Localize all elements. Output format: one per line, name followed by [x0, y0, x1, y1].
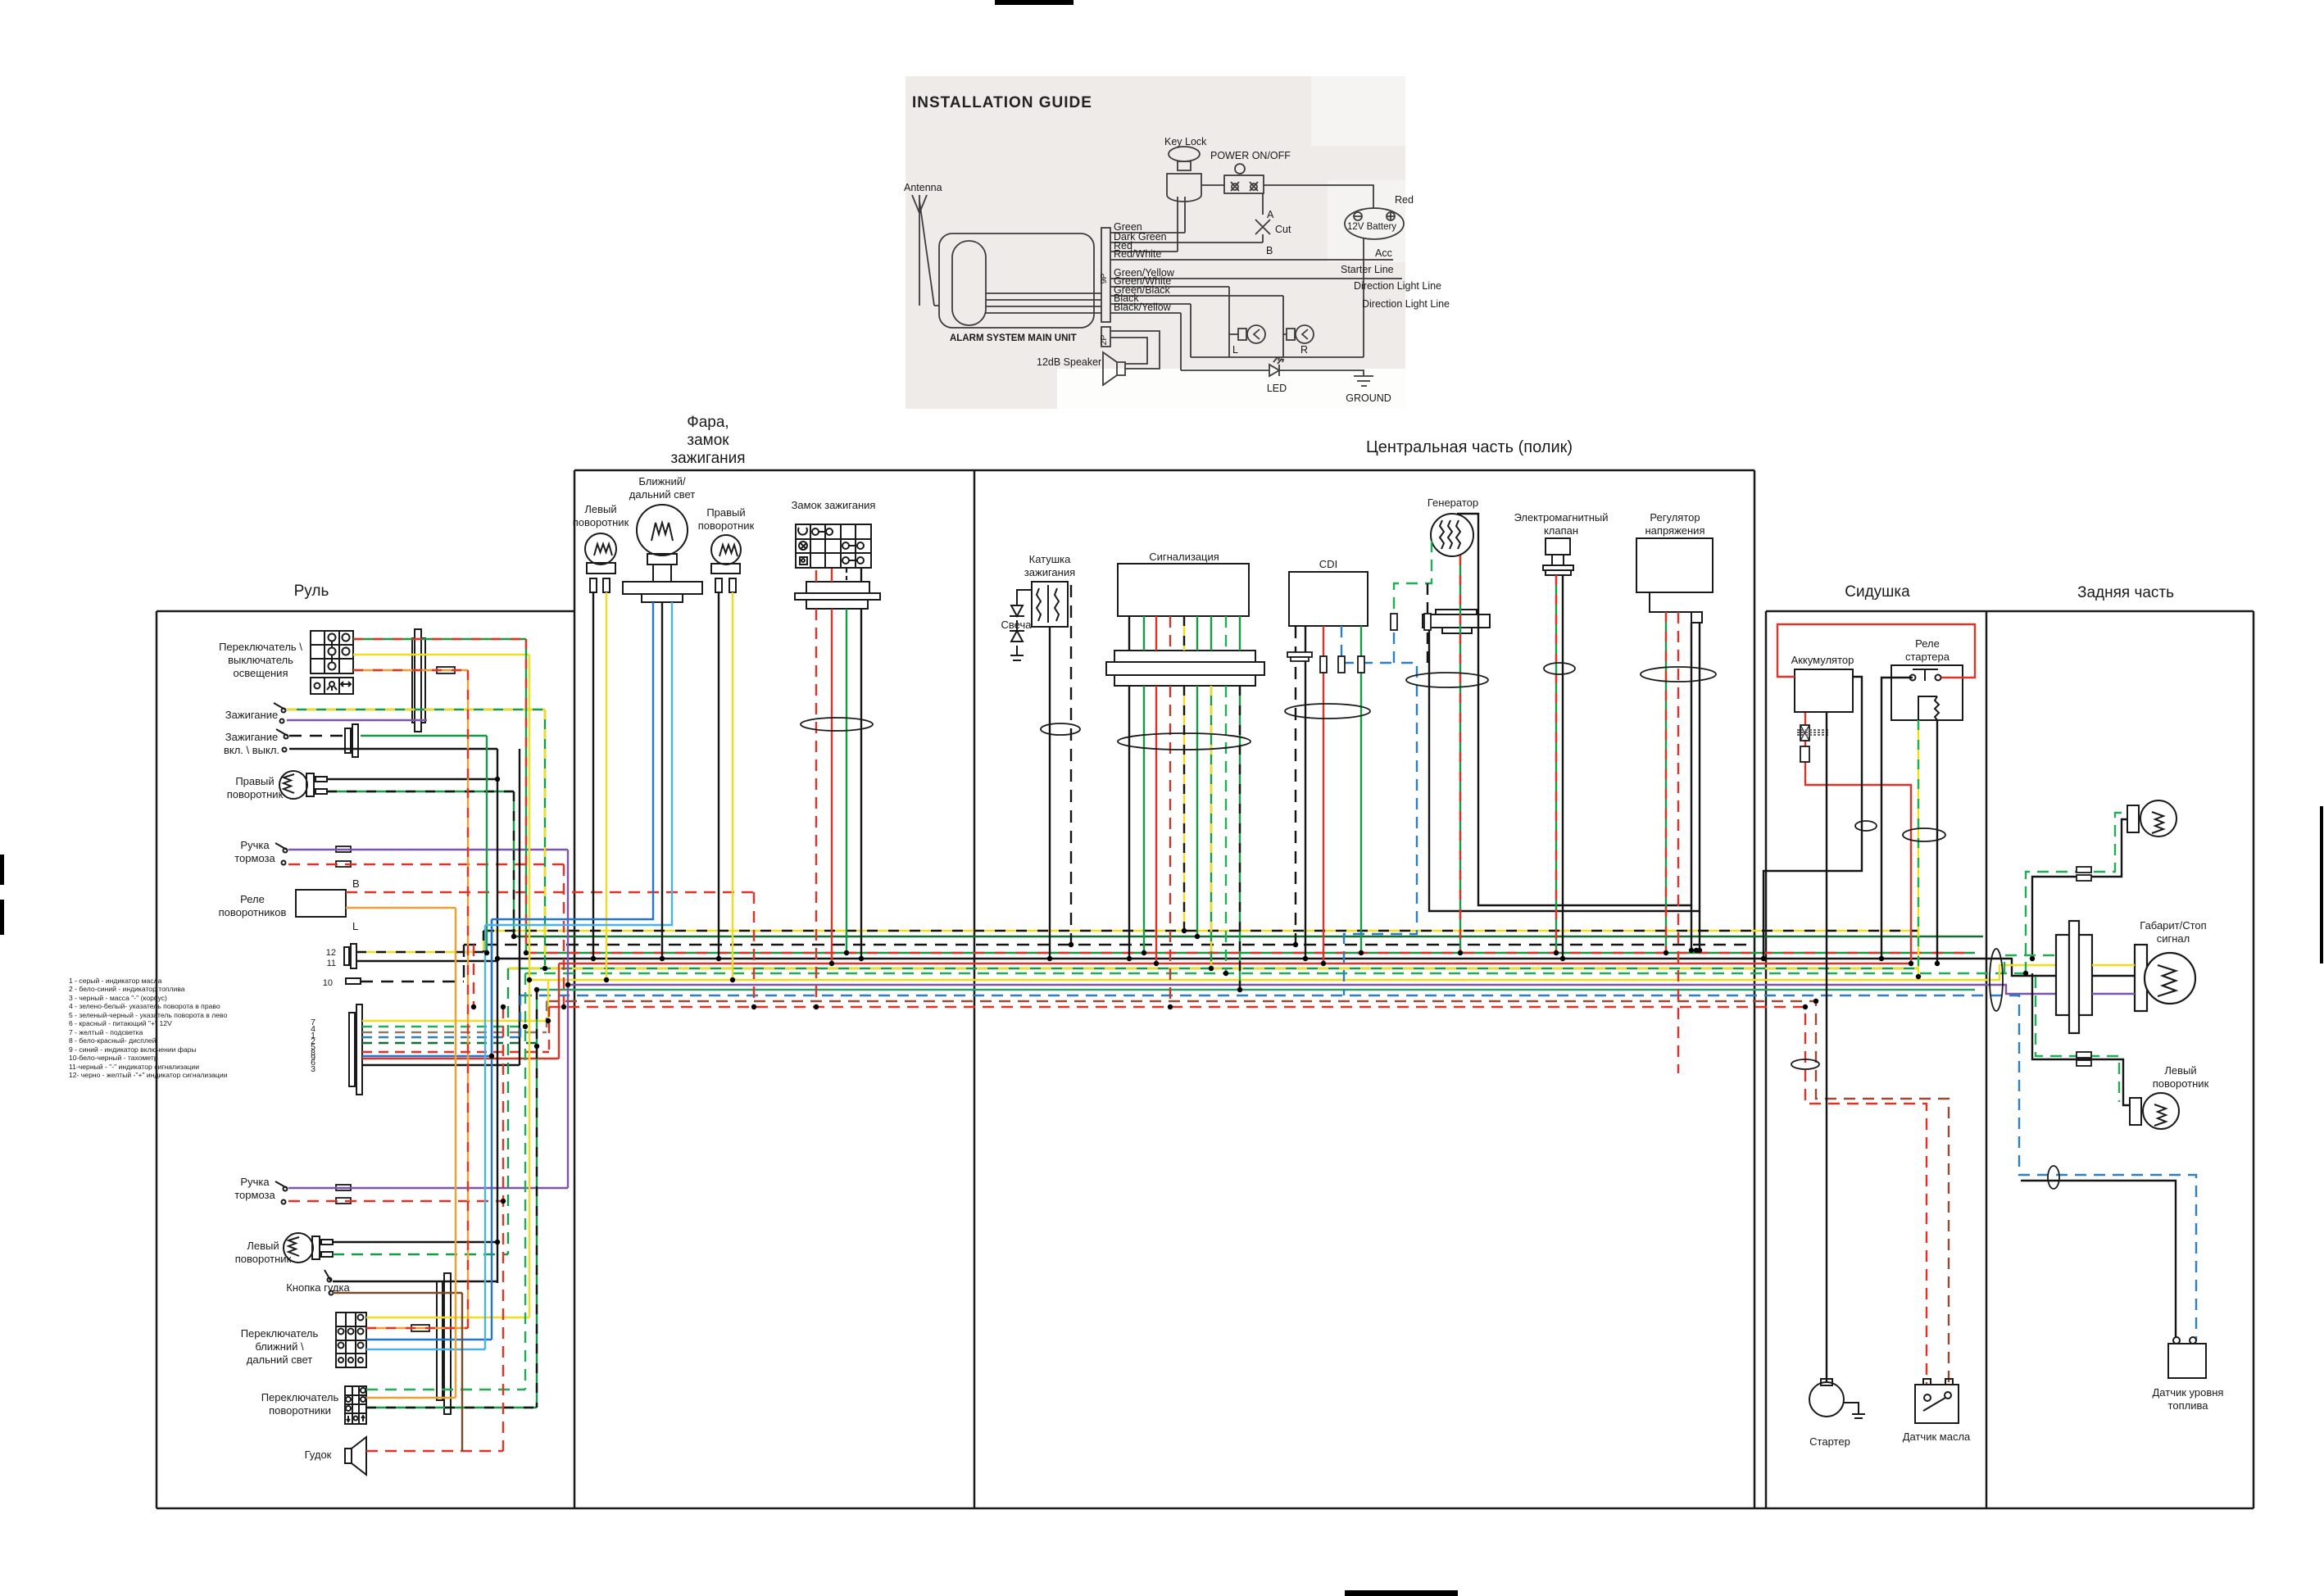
svg-text:8 - бело-красный- дисплей: 8 - бело-красный- дисплей [69, 1036, 157, 1045]
svg-text:Руль: Руль [294, 583, 329, 600]
svg-text:поворотник: поворотник [227, 788, 284, 800]
svg-text:LED: LED [1267, 383, 1287, 394]
svg-text:Замок зажигания: Замок зажигания [792, 499, 876, 511]
svg-text:L: L [352, 920, 358, 932]
svg-text:освещения: освещения [234, 667, 288, 679]
svg-text:дальний свет: дальний свет [629, 488, 696, 501]
svg-text:дальний свет: дальний свет [247, 1353, 313, 1366]
svg-text:Левый: Левый [247, 1240, 279, 1252]
svg-text:2 - бело-синий - индикатор топ: 2 - бело-синий - индикатор топлива [69, 985, 185, 993]
svg-text:1 - серый - индикатор масла: 1 - серый - индикатор масла [69, 977, 162, 985]
svg-text:Red: Red [1395, 194, 1414, 206]
svg-text:R: R [1300, 344, 1308, 356]
svg-text:Аккумулятор: Аккумулятор [1791, 654, 1854, 666]
svg-text:ALARM SYSTEM MAIN UNIT: ALARM SYSTEM MAIN UNIT [950, 333, 1077, 343]
svg-text:тормоза: тормоза [234, 1189, 275, 1201]
svg-text:INSTALLATION GUIDE: INSTALLATION GUIDE [912, 94, 1092, 111]
svg-text:Переключатель: Переключатель [261, 1391, 339, 1403]
svg-text:Сидушка: Сидушка [1845, 583, 1910, 601]
svg-text:Фара,: Фара, [687, 414, 729, 431]
svg-text:Гудок: Гудок [305, 1449, 332, 1461]
svg-text:Key Lock: Key Lock [1164, 136, 1207, 147]
svg-text:Переключатель \: Переключатель \ [219, 641, 302, 653]
svg-text:B: B [352, 877, 360, 890]
svg-text:Сигнализация: Сигнализация [1149, 551, 1219, 563]
svg-text:Acc: Acc [1375, 247, 1392, 259]
svg-text:GROUND: GROUND [1346, 392, 1391, 404]
svg-text:POWER ON/OFF: POWER ON/OFF [1210, 150, 1291, 161]
svg-text:Ручка: Ручка [240, 1176, 270, 1188]
svg-text:топлива: топлива [2168, 1399, 2209, 1412]
svg-text:Датчик масла: Датчик масла [1903, 1431, 1971, 1443]
svg-text:Катушка: Катушка [1029, 553, 1072, 565]
svg-text:12V Battery: 12V Battery [1347, 222, 1396, 232]
svg-text:Black/Yellow: Black/Yellow [1114, 302, 1172, 313]
svg-text:Antenna: Antenna [904, 182, 942, 193]
svg-text:Red/White: Red/White [1114, 248, 1161, 260]
svg-text:поворотник: поворотник [698, 519, 755, 532]
svg-text:5 - зеленый-черный - указатель: 5 - зеленый-черный - указатель поворота … [69, 1011, 227, 1019]
svg-text:стартера: стартера [1905, 651, 1950, 663]
svg-text:4 - зелено-белый- указатель по: 4 - зелено-белый- указатель поворота в п… [69, 1002, 220, 1010]
svg-text:Кнопка гудка: Кнопка гудка [286, 1281, 350, 1294]
svg-text:вкл. \ выкл.: вкл. \ выкл. [224, 744, 279, 756]
svg-text:Правый: Правый [706, 506, 745, 519]
svg-text:поворотники: поворотники [269, 1404, 331, 1417]
svg-text:Задняя часть: Задняя часть [2077, 584, 2174, 601]
svg-text:10: 10 [323, 978, 333, 988]
svg-text:сигнал: сигнал [2157, 932, 2190, 945]
svg-text:Габарит/Стоп: Габарит/Стоп [2140, 919, 2206, 932]
svg-text:3 - черный - масса "-" (корпус: 3 - черный - масса "-" (корпус) [69, 994, 167, 1002]
svg-text:12- черно - желтый -"+" индика: 12- черно - желтый -"+" индикатор сигнал… [69, 1071, 228, 1079]
svg-text:11-черный - "-" индикатор сигн: 11-черный - "-" индикатор сигнализации [69, 1063, 199, 1071]
svg-text:L: L [1232, 344, 1238, 356]
svg-text:ближний \: ближний \ [255, 1340, 304, 1353]
svg-text:CDI: CDI [1319, 558, 1337, 570]
svg-text:Датчик уровня: Датчик уровня [2153, 1386, 2224, 1399]
svg-text:A: A [1267, 209, 1274, 220]
svg-text:10-бело-черный - тахометр: 10-бело-черный - тахометр [69, 1054, 158, 1062]
svg-text:Электромагнитный: Электромагнитный [1514, 511, 1608, 524]
svg-text:Direction Light Line: Direction Light Line [1354, 280, 1441, 292]
svg-text:Генератор: Генератор [1428, 496, 1478, 509]
svg-text:12: 12 [326, 948, 336, 958]
svg-text:B: B [1266, 245, 1273, 256]
svg-text:Реле: Реле [240, 893, 265, 905]
svg-text:Реле: Реле [1915, 637, 1940, 650]
svg-text:Зажигание: Зажигание [225, 731, 278, 743]
svg-text:напряжения: напряжения [1645, 524, 1705, 537]
svg-text:Ручка: Ручка [240, 839, 270, 851]
svg-text:выключатель: выключатель [228, 654, 293, 666]
svg-text:7 - желтый - подсветка: 7 - желтый - подсветка [69, 1028, 143, 1036]
svg-text:Cut: Cut [1275, 224, 1291, 235]
svg-text:9P: 9P [1099, 274, 1109, 284]
svg-text:зажигания: зажигания [1024, 566, 1075, 578]
svg-text:Левый: Левый [2164, 1064, 2196, 1077]
svg-text:Переключатель: Переключатель [241, 1327, 319, 1340]
svg-text:Регулятор: Регулятор [1650, 511, 1700, 524]
svg-text:Direction Light Line: Direction Light Line [1362, 298, 1450, 310]
svg-text:зажигания: зажигания [670, 450, 745, 467]
svg-text:2P: 2P [1099, 335, 1109, 346]
svg-text:Левый: Левый [584, 503, 616, 515]
svg-text:поворотник: поворотник [235, 1253, 292, 1265]
svg-text:Правый: Правый [235, 775, 274, 787]
svg-text:замок: замок [687, 432, 729, 449]
svg-text:тормоза: тормоза [234, 852, 275, 864]
svg-text:12dB Speaker: 12dB Speaker [1037, 356, 1101, 368]
svg-text:9 - синий - индикатор включени: 9 - синий - индикатор включении фары [69, 1045, 197, 1054]
svg-text:поворотников: поворотников [219, 906, 287, 918]
svg-text:поворотник: поворотник [2153, 1077, 2209, 1090]
svg-text:поворотник: поворотник [573, 516, 629, 528]
svg-text:Стартер: Стартер [1809, 1435, 1850, 1448]
svg-text:6 - красный - питающий "+" 12V: 6 - красный - питающий "+" 12V [69, 1019, 172, 1027]
svg-text:Ближний/: Ближний/ [638, 475, 686, 487]
svg-text:Starter Line: Starter Line [1341, 264, 1394, 275]
svg-text:11: 11 [327, 959, 336, 968]
svg-text:3: 3 [311, 1064, 315, 1074]
svg-text:Центральная часть (полик): Центральная часть (полик) [1366, 438, 1573, 456]
svg-text:клапан: клапан [1544, 524, 1578, 537]
svg-text:Зажигание: Зажигание [225, 709, 278, 721]
